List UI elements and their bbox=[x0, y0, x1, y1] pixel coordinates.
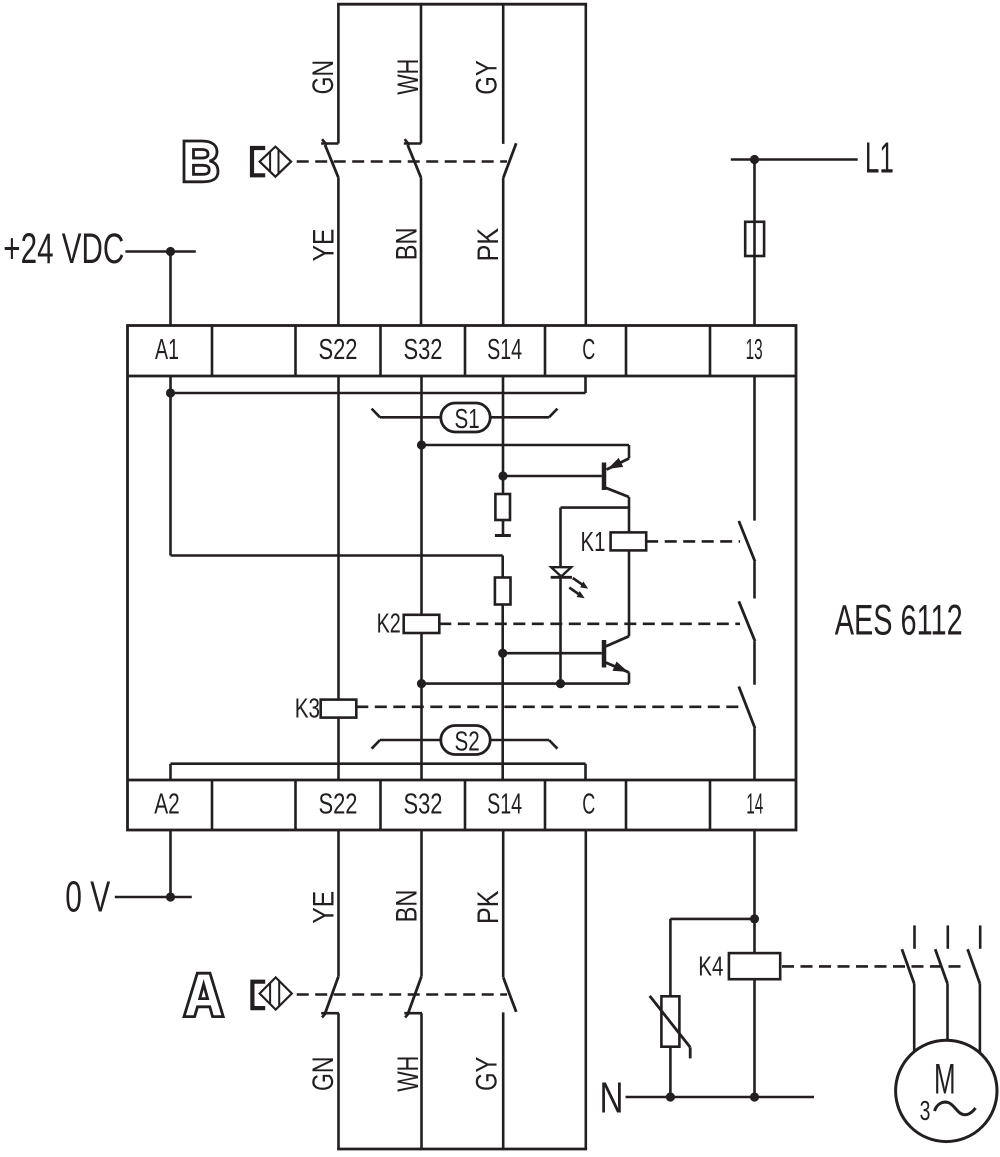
svg-text:S2: S2 bbox=[455, 725, 480, 756]
svg-text:PK: PK bbox=[472, 890, 505, 924]
svg-text:14: 14 bbox=[746, 789, 763, 821]
svg-text:S14: S14 bbox=[487, 789, 522, 821]
svg-text:GN: GN bbox=[307, 60, 340, 94]
svg-text:YE: YE bbox=[308, 891, 341, 924]
svg-text:BN: BN bbox=[390, 890, 423, 923]
svg-text:PK: PK bbox=[472, 228, 505, 262]
svg-text:S32: S32 bbox=[404, 334, 443, 366]
svg-text:M: M bbox=[934, 1057, 956, 1104]
svg-text:GY: GY bbox=[470, 1057, 503, 1091]
svg-text:S1: S1 bbox=[455, 403, 480, 434]
svg-text:C: C bbox=[582, 789, 595, 821]
svg-text:WH: WH bbox=[392, 1056, 425, 1092]
svg-text:A2: A2 bbox=[154, 789, 180, 821]
svg-text:L1: L1 bbox=[865, 134, 894, 182]
svg-text:S22: S22 bbox=[319, 789, 358, 821]
svg-text:GN: GN bbox=[307, 1057, 340, 1091]
svg-text:AES 6112: AES 6112 bbox=[835, 597, 963, 645]
svg-text:YE: YE bbox=[308, 229, 341, 262]
svg-text:0 V: 0 V bbox=[65, 874, 110, 922]
svg-text:N: N bbox=[600, 1074, 624, 1122]
svg-text:K1: K1 bbox=[581, 526, 606, 557]
svg-text:S22: S22 bbox=[319, 334, 358, 366]
svg-text:K4: K4 bbox=[698, 951, 723, 982]
svg-text:S32: S32 bbox=[404, 789, 443, 821]
svg-text:BN: BN bbox=[390, 227, 423, 260]
svg-text:A1: A1 bbox=[155, 334, 179, 366]
svg-text:K3: K3 bbox=[295, 693, 320, 724]
svg-text:K2: K2 bbox=[377, 607, 401, 638]
svg-text:S14: S14 bbox=[487, 334, 522, 366]
svg-text:GY: GY bbox=[470, 60, 503, 94]
svg-text:13: 13 bbox=[746, 334, 763, 366]
svg-text:+24 VDC: +24 VDC bbox=[3, 225, 124, 273]
svg-text:C: C bbox=[582, 334, 595, 366]
svg-text:WH: WH bbox=[392, 59, 425, 95]
svg-text:3: 3 bbox=[920, 1095, 931, 1126]
